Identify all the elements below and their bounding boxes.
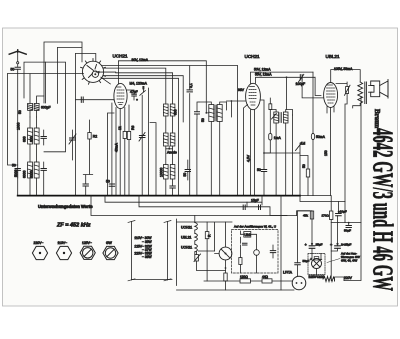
svg-text:6000: 6000 xyxy=(23,170,27,178)
box U10 inside xyxy=(244,232,251,238)
coil L2 pair mid xyxy=(28,128,40,144)
meter oval 50mA xyxy=(311,133,314,139)
wire L3 stubs to ground xyxy=(30,178,37,196)
wire antenna stem xyxy=(17,52,19,67)
bandfilter BF3 coils xyxy=(274,112,288,123)
svg-text:1mA: 1mA xyxy=(274,136,282,140)
svg-text:4642 GW/3 und H 46 GW: 4642 GW/3 und H 46 GW xyxy=(367,128,398,291)
wire cap b top xyxy=(337,222,339,224)
wire osc rect a xyxy=(44,42,82,103)
wire phono stem xyxy=(298,211,310,276)
wire tube2 pins down xyxy=(116,105,129,196)
svg-text:R6: R6 xyxy=(131,126,135,130)
wire tube4 plate up xyxy=(331,70,361,83)
coupling capacitor 100pF tube3-tube4 xyxy=(300,75,302,80)
heater coil chain xyxy=(195,223,198,252)
wire x75 long vertical xyxy=(75,54,77,196)
wire T1 stubs xyxy=(166,116,173,133)
capacitor 50 right of T3 xyxy=(185,170,190,172)
wire lamp left xyxy=(197,251,220,255)
knob 1 hexagon 220V xyxy=(32,246,47,259)
svg-text:15µF: 15µF xyxy=(251,199,259,203)
svg-text:50: 50 xyxy=(183,173,187,177)
wire x196 vertical xyxy=(196,119,198,196)
electrolytic cap b xyxy=(335,246,341,249)
speaker LS xyxy=(371,80,388,99)
wire BF3 legs xyxy=(276,115,292,196)
wire x190 vertical with cap xyxy=(189,66,191,196)
svg-text:120Ω: 120Ω xyxy=(240,275,248,279)
capacitor C 600pF mid xyxy=(41,137,46,139)
wire T2 mid tap xyxy=(166,146,173,149)
wire cap600 xyxy=(43,130,45,145)
capacitor inside box xyxy=(243,243,248,245)
trimmer cap BF2 left xyxy=(195,112,200,114)
trimmer arrow heater xyxy=(194,254,201,262)
resistor small BF3 input xyxy=(269,104,272,110)
svg-text:Anode: Anode xyxy=(167,151,177,155)
wire agc chain xyxy=(300,156,308,196)
resistor heater series xyxy=(205,232,209,239)
bandfilter BF2 coils xyxy=(209,105,222,122)
trimmer arrow tube2 plate xyxy=(140,91,146,96)
svg-text:170Ω: 170Ω xyxy=(322,214,330,218)
wire osc top lines xyxy=(58,48,96,62)
wire tube1 arrow tap xyxy=(96,71,116,73)
svg-text:110V~: 110V~ xyxy=(58,241,68,245)
wire 100pF line xyxy=(76,99,115,101)
svg-text:50: 50 xyxy=(106,180,110,184)
tube U4 UBL21 output xyxy=(324,83,338,108)
svg-text:50mA: 50mA xyxy=(316,135,326,139)
dashed box GW variants xyxy=(232,230,279,274)
wire fan line 5 xyxy=(102,78,179,195)
wire under lamp xyxy=(197,261,226,290)
svg-text:6000: 6000 xyxy=(29,170,33,178)
svg-text:50: 50 xyxy=(201,118,205,122)
resistor 120ohm bottom xyxy=(240,279,251,283)
node BF2 junction xyxy=(205,112,207,114)
capacitor 50pF phono xyxy=(295,263,300,265)
knob 2 hexagon 110V xyxy=(56,246,71,259)
wire tube3 top plate leads xyxy=(251,72,316,109)
svg-text:4,5V: 4,5V xyxy=(247,154,251,162)
wire coil L1 stubs xyxy=(30,74,44,117)
tube U2 UCH21 triode-heptode xyxy=(114,83,127,108)
node coupling junction xyxy=(286,76,288,78)
svg-text:M4, 120mA: M4, 120mA xyxy=(130,82,148,86)
node T2 junction xyxy=(168,148,170,150)
capacitor 50uF stub xyxy=(346,226,351,228)
trimmer capacitor arrow xyxy=(69,134,76,144)
capacitor on x190 xyxy=(187,90,192,92)
wire T3 stubs to ground xyxy=(166,179,173,196)
electrolytic cap a xyxy=(309,246,315,249)
svg-text:U10: U10 xyxy=(245,233,251,237)
resistor agc xyxy=(306,169,309,177)
wire tube2 left pin xyxy=(112,100,114,195)
svg-text:45k: 45k xyxy=(303,214,308,218)
IF transformer T3 bottom pair xyxy=(164,165,175,180)
wire right bottom rail xyxy=(344,97,361,281)
knob 3 circle switch xyxy=(80,246,95,259)
svg-text:GW, 46, GW: GW, 46, GW xyxy=(341,259,357,263)
wire left inner rect xyxy=(44,62,66,152)
wire heater line 1 xyxy=(105,196,262,203)
svg-text:44Ω: 44Ω xyxy=(262,275,269,279)
wire x266 vertical xyxy=(260,100,264,196)
wire coupling line xyxy=(302,77,324,98)
resistor R6 xyxy=(127,131,130,139)
wire bus right thin xyxy=(300,195,331,197)
node junction 100pF line xyxy=(136,99,138,101)
svg-text:LF/TA: LF/TA xyxy=(283,271,293,275)
wire speaker secondary xyxy=(369,86,373,93)
svg-text:Untersuchungsdaten Werte: Untersuchungsdaten Werte xyxy=(38,204,93,209)
pointer line label to box xyxy=(327,259,340,263)
potentiometer arrow volume xyxy=(296,143,302,151)
wire x148 vertical xyxy=(147,88,149,196)
svg-text:UCH21: UCH21 xyxy=(245,54,261,59)
svg-text:40mA: 40mA xyxy=(114,142,118,152)
svg-text:90V, 12mA: 90V, 12mA xyxy=(132,58,149,62)
wire L2 stubs xyxy=(30,117,37,162)
svg-text:~ 38W: ~ 38W xyxy=(142,255,153,259)
feedback resistor with arrow xyxy=(346,87,349,94)
svg-text:UCH21: UCH21 xyxy=(181,226,192,230)
wire inside box xyxy=(240,231,256,273)
wire x331 vertical xyxy=(330,196,332,281)
wire cap50 stub xyxy=(17,170,19,178)
svg-text:600: 600 xyxy=(29,136,33,142)
ground chassis bus xyxy=(18,195,300,197)
svg-text:55V, 12mA: 55V, 12mA xyxy=(255,72,272,76)
wire left x24 vertical xyxy=(24,62,46,98)
wire det line xyxy=(264,143,300,196)
svg-text:50: 50 xyxy=(12,164,16,168)
rectifier dotted box xyxy=(308,254,325,275)
circle inside box xyxy=(254,250,260,256)
capacitor 47pF at tube2 xyxy=(132,94,137,96)
wire fan line 1 xyxy=(102,65,238,67)
resistor R5 xyxy=(123,131,126,138)
wire x176 vertical xyxy=(176,219,178,286)
svg-text:10000: 10000 xyxy=(160,167,164,177)
svg-text:98V: 98V xyxy=(238,88,245,92)
resistor 1mA oval xyxy=(269,134,272,141)
capacitor under T3 xyxy=(170,186,175,188)
svg-text:100pF: 100pF xyxy=(296,82,306,86)
svg-text:50µF: 50µF xyxy=(344,229,351,233)
coil L3 pair lower xyxy=(28,162,40,178)
svg-text:600: 600 xyxy=(23,136,27,142)
output transformer primary zigzag xyxy=(358,82,363,104)
wire junction y222.6 xyxy=(331,202,361,223)
wire transformer bottom xyxy=(353,104,361,108)
capacitor 50 under tube2 xyxy=(109,184,114,186)
wire bottom power lines xyxy=(177,281,295,290)
svg-text:UCH21: UCH21 xyxy=(181,246,192,250)
wire osc rect b xyxy=(57,48,59,104)
svg-text:UBL21: UBL21 xyxy=(181,236,191,240)
wire cap47 stub xyxy=(127,90,134,100)
svg-text:0,1: 0,1 xyxy=(189,83,193,88)
svg-text:1000: 1000 xyxy=(17,122,21,130)
wire tube4 screen xyxy=(336,84,347,202)
label voltage table xyxy=(134,236,152,259)
wire zigzag connects xyxy=(317,277,345,281)
wire antenna down xyxy=(17,69,19,73)
svg-text:125V~: 125V~ xyxy=(82,241,92,245)
wire input bus horizontal xyxy=(8,73,84,75)
wire lamp stubs xyxy=(225,222,227,273)
wire chassis bottom xyxy=(132,279,172,281)
wire tube4 pins down xyxy=(327,107,334,196)
wire heater line 2 xyxy=(139,196,297,216)
svg-text:50: 50 xyxy=(302,164,306,168)
wire BF3 top arcs xyxy=(270,110,293,116)
node lamp bottom xyxy=(225,267,227,269)
coil L1 antenna primary xyxy=(28,103,40,110)
svg-text:50V, 12mA: 50V, 12mA xyxy=(254,68,271,72)
wire x310 down xyxy=(312,72,314,196)
dial lamp circle xyxy=(219,247,232,260)
resistor inside box xyxy=(239,258,242,265)
resistor R2 xyxy=(88,133,91,140)
capacitor C lower xyxy=(41,169,46,171)
wire R2 vertical xyxy=(83,120,92,175)
resistor right column a xyxy=(310,211,313,219)
resistor 44ohm bottom xyxy=(262,279,272,283)
trimmer arrow BF3 xyxy=(272,114,277,120)
svg-text:~ 35W: ~ 35W xyxy=(142,240,153,244)
capacitor heater b electrolytic xyxy=(259,205,261,210)
svg-text:R2: R2 xyxy=(93,135,97,139)
wire cap T3 xyxy=(172,188,174,196)
wire trimmer mid vertical xyxy=(142,89,143,195)
wire resistor a column xyxy=(311,211,313,254)
wire cap50 T3 xyxy=(187,160,189,180)
wire BF2 top arcs xyxy=(199,102,227,113)
antenna xyxy=(9,50,26,54)
svg-text:220V~: 220V~ xyxy=(34,241,44,245)
wire trimmer BF2 xyxy=(197,102,199,119)
capacitor C left 50 xyxy=(15,169,20,171)
wire tube1 to tube2 diagonal xyxy=(101,77,111,84)
wire fan line 2 xyxy=(103,68,166,104)
wire tube3 pins down xyxy=(244,105,255,196)
svg-text:50pF: 50pF xyxy=(303,259,310,263)
wire top heater connect xyxy=(177,222,233,251)
wire T2 stubs xyxy=(166,146,173,165)
chassis boundary right dashed xyxy=(167,222,169,281)
wire heater line 3 xyxy=(91,196,287,216)
resistor right column b xyxy=(330,211,333,220)
label aus der ausf xyxy=(341,252,360,263)
wire grid top bus xyxy=(118,61,206,113)
svg-text:50: 50 xyxy=(257,168,261,172)
svg-text:+10µF: +10µF xyxy=(338,210,347,214)
wire left vertical 2 xyxy=(17,74,19,196)
svg-text:220V: 220V xyxy=(344,276,353,280)
wire trimmer vertical xyxy=(72,130,74,160)
resistor under lamp xyxy=(224,273,227,281)
node y222.6 xyxy=(348,222,350,224)
wire fan line 3 xyxy=(116,73,173,104)
capacitor antenna series xyxy=(15,67,20,69)
IF transformer T2 mid pair xyxy=(164,133,175,146)
wire 40mA vertical xyxy=(108,113,115,196)
wire heater jog to resistor a xyxy=(297,211,312,216)
svg-text:UBL21: UBL21 xyxy=(326,54,340,59)
capacitor heater a xyxy=(243,205,245,210)
svg-text:ZF = 452 kHz: ZF = 452 kHz xyxy=(56,223,91,229)
svg-text:600: 600 xyxy=(174,109,178,115)
capacitor dashed box right xyxy=(270,251,275,253)
rectifier circle xyxy=(312,259,322,269)
node antenna coupling xyxy=(17,62,19,64)
trimmer arrow mid xyxy=(139,133,145,142)
svg-text:Braun: Braun xyxy=(373,109,381,128)
svg-text:47pF: 47pF xyxy=(130,90,138,94)
svg-text:1k: 1k xyxy=(118,126,122,130)
knob 4 circle switch xyxy=(103,246,118,259)
wire 1mA stubs xyxy=(264,98,270,153)
rectifier plus minus marks xyxy=(314,257,319,260)
svg-text:UCH21: UCH21 xyxy=(113,53,129,58)
svg-text:150: 150 xyxy=(324,150,328,156)
capacitor C 50 bottomleft xyxy=(83,184,88,186)
svg-text:600pF: 600pF xyxy=(41,106,51,110)
wire caplower xyxy=(43,162,45,196)
wire feed line y201.5 xyxy=(300,196,345,202)
wire fan line 4 xyxy=(103,76,183,122)
node junction det xyxy=(263,152,265,154)
wire x237 vertical xyxy=(237,66,239,196)
svg-text:25µF: 25µF xyxy=(316,242,323,246)
capacitor det 50 xyxy=(261,170,266,172)
capacitor 10uF xyxy=(336,214,342,216)
svg-text:2×25µF: 2×25µF xyxy=(341,242,351,246)
IF transformer T1 top pair xyxy=(164,104,175,116)
resistor UY lamp xyxy=(195,255,199,262)
svg-text:50: 50 xyxy=(11,68,15,72)
output transformer core xyxy=(365,82,367,104)
wire left vertical 1 xyxy=(8,74,18,165)
tube U1 UCH21 oscillator (top view circle) xyxy=(81,59,106,85)
wire R5 R6 down xyxy=(125,139,129,196)
wire BF2 legs xyxy=(211,122,219,196)
svg-text:Auf der Ausführungen W, GL, U: Auf der Ausführungen W, GL, U xyxy=(234,225,276,229)
wire cap50bl xyxy=(85,175,87,196)
wire tube3 grid to BF2 xyxy=(227,101,246,117)
wire rect stubs xyxy=(312,254,321,278)
wire heater caps stubs xyxy=(247,196,262,207)
wire misc right links xyxy=(280,196,282,290)
svg-text:GW: GW xyxy=(106,241,113,245)
wire x156 vertical xyxy=(150,123,156,196)
chassis boundary left dashed xyxy=(131,222,133,281)
svg-text:50: 50 xyxy=(18,110,22,114)
wire 10uF stub xyxy=(331,202,338,252)
phono plug circle xyxy=(292,276,306,290)
tube U3 UCH21 second xyxy=(246,83,261,109)
capacitor blob tube2 plate xyxy=(142,86,144,89)
capacitor 100pF xyxy=(81,97,83,102)
wire resistor heater stubs xyxy=(206,222,208,281)
wire heater chain stubs xyxy=(194,216,196,255)
wire lamp junction left xyxy=(197,269,226,271)
dropping resistor zigzag xyxy=(323,277,335,282)
